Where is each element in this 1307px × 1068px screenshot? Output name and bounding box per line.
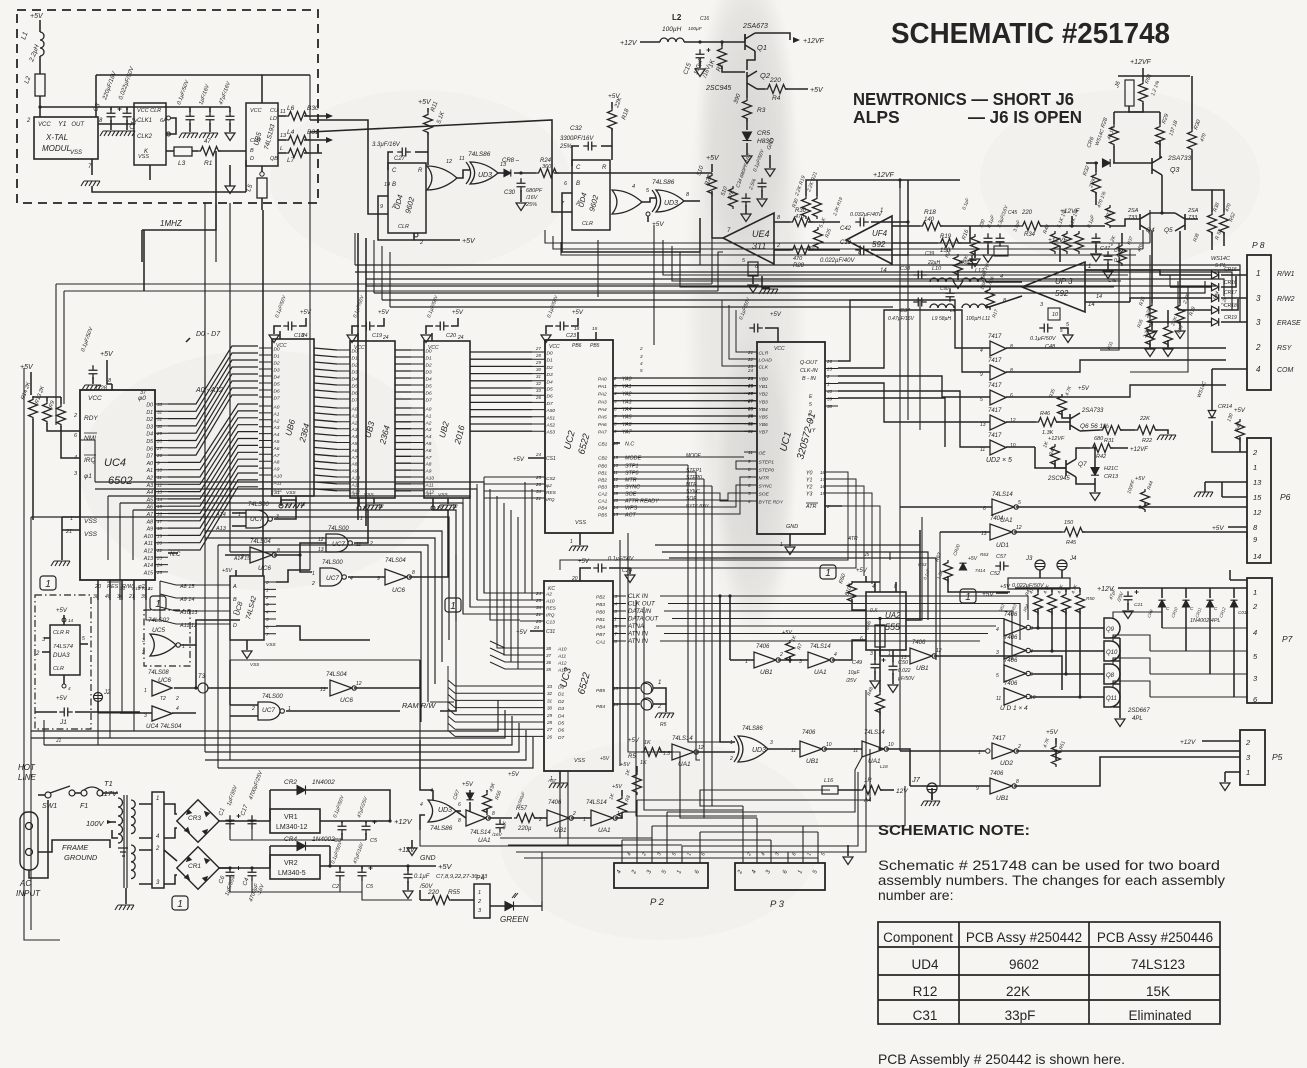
wire [1094,448,1096,460]
svg-text:24: 24 [301,333,308,339]
wire [534,817,547,819]
wire [440,700,456,711]
junction [194,686,197,689]
resistor [920,222,943,231]
wire [874,671,876,680]
wire [235,570,237,576]
wire [572,146,579,166]
box [257,178,267,198]
svg-text:F1: F1 [80,803,88,810]
inverter UD1 7404 [990,524,1016,540]
wire [209,123,211,132]
svg-text:B: B [250,148,254,154]
transistor Q10 2SD667 [1104,641,1120,661]
svg-text:12: 12 [378,504,384,510]
svg-text:+5V: +5V [30,13,44,20]
svg-text:2: 2 [419,240,423,246]
wire [388,152,393,170]
svg-text:UB1: UB1 [806,758,819,765]
wire UC1 right stubs [825,361,838,406]
wire [1110,219,1140,226]
wire [1121,233,1123,243]
wire [874,650,876,660]
svg-text:C39: C39 [925,251,934,257]
wire [752,276,754,284]
svg-text:A9: A9 [351,469,358,475]
svg-text:PB2: PB2 [598,478,607,484]
svg-text:C5: C5 [366,884,374,890]
inverter UD2 7417 [992,743,1018,759]
ground [921,801,940,806]
junction [406,864,409,867]
svg-text:C57: C57 [996,554,1007,560]
wire [907,180,909,252]
wire [1212,190,1224,212]
wire cs [280,496,282,504]
svg-text:D4: D4 [547,379,553,385]
scan blotches [80,350,440,590]
svg-text:37: 37 [546,653,552,658]
wire [232,525,246,527]
wire [246,640,248,650]
wire vcc top [262,75,310,103]
svg-text:1: 1 [658,680,661,686]
svg-text:AC: AC [19,879,31,888]
wire vss [447,498,449,504]
junction [720,40,723,43]
wire [1109,204,1111,206]
svg-text:8: 8 [1016,779,1019,785]
wire uc3 signals [656,596,1028,680]
wire [1161,200,1163,213]
wire [1142,68,1144,76]
wire [514,172,536,174]
svg-text:UB1: UB1 [996,795,1009,802]
svg-text:A4: A4 [273,432,280,438]
resistor [633,772,642,795]
wire 1MHz [142,151,216,230]
svg-text:74LS08: 74LS08 [148,670,169,676]
wire [278,152,286,154]
svg-text:+12V: +12V [394,817,413,826]
svg-text:+5V: +5V [56,608,68,614]
svg-text:74LS86: 74LS86 [468,151,491,158]
svg-text:VCC: VCC [549,344,560,350]
wire [1209,588,1211,598]
wire [270,845,330,847]
wire [486,808,488,812]
svg-text:UA1: UA1 [598,827,611,834]
jumper [1035,560,1045,570]
box [822,786,838,794]
svg-text:D: D [250,156,254,162]
svg-text:40: 40 [105,594,111,600]
wire [195,645,197,688]
wire collector [755,33,790,40]
svg-text:D1: D1 [547,358,553,364]
svg-text:17: 17 [820,477,826,482]
svg-text:T2: T2 [160,696,166,702]
wire [116,792,118,794]
svg-text:+5V: +5V [222,568,233,574]
svg-text:L9: L9 [950,308,956,313]
wire [276,570,310,582]
svg-text:CU: CU [270,108,278,114]
wire [1114,111,1143,113]
svg-text:CR16: CR16 [1224,280,1237,286]
box [994,246,1008,256]
svg-text:CR8 –: CR8 – [502,158,520,164]
svg-text:C30: C30 [504,190,516,196]
wire to Q2 [747,51,755,70]
svg-text:2: 2 [35,651,40,657]
svg-text:PA3: PA3 [598,399,607,405]
resistor R9b [875,625,885,647]
wire cpu pin stubs [155,404,168,572]
wire [39,20,41,32]
svg-text:11: 11 [280,109,286,115]
wire [320,865,436,867]
box [1240,730,1265,785]
wire base [1113,162,1152,164]
wire [1129,103,1143,112]
capacitor [696,49,705,63]
wire to P6 12 [1016,506,1247,508]
wire [958,226,970,243]
transistor [1175,213,1185,231]
wire [469,790,471,793]
svg-text:STEP0: STEP0 [686,475,702,481]
wire [1039,570,1041,578]
svg-text:PB0: PB0 [596,610,605,616]
wire [712,191,723,238]
svg-text:2: 2 [657,704,662,710]
wire [530,630,544,632]
wire decoder inputs [206,585,230,624]
svg-text:BYTE RDY: BYTE RDY [686,503,710,508]
svg-text:12: 12 [1010,418,1016,424]
svg-text:P 8: P 8 [1252,240,1265,250]
wire [1229,570,1231,580]
svg-text:C52: C52 [990,571,1000,577]
wire [892,650,894,662]
svg-text:UB1: UB1 [916,665,929,672]
svg-text:25%: 25% [559,144,573,150]
wire [1094,484,1096,492]
svg-text:+5V: +5V [452,310,464,316]
diode CR17 [1212,294,1219,302]
svg-text:12: 12 [698,745,704,751]
capacitor [361,322,375,331]
wire [931,793,933,800]
svg-text:3: 3 [144,713,147,719]
wire [38,844,52,852]
svg-text:A50: A50 [546,408,556,414]
svg-text:100µH: 100µH [662,26,682,33]
svg-text:C38: C38 [900,266,911,272]
svg-text:D7: D7 [558,735,564,741]
wire [427,108,429,112]
svg-text:NEWTRONICS — SHORT J6: NEWTRONICS — SHORT J6 [853,89,1074,109]
svg-text:3: 3 [996,650,999,656]
wire [1061,570,1063,578]
svg-text:8: 8 [492,811,495,817]
wire [80,643,88,645]
capacitor [107,108,116,122]
wire bottom rail [92,186,246,192]
svg-text:7404: 7404 [990,516,1004,522]
wire [611,128,613,160]
inverter UB1 7406 d [800,741,826,757]
wire [304,152,322,154]
svg-text:15K: 15K [1146,984,1170,999]
ground [655,713,674,718]
svg-text:R20: R20 [793,263,805,269]
resistor [429,896,452,905]
resistor [848,581,857,604]
svg-text:D3: D3 [352,370,358,376]
resistor [971,234,980,257]
svg-text:C23: C23 [566,333,577,339]
wire [1040,225,1105,227]
ground [1147,331,1157,339]
svg-text:1.3: 1.3 [663,751,670,757]
svg-text:0.032µF/40V: 0.032µF/40V [850,212,883,218]
wire [808,249,840,251]
svg-text:YB1: YB1 [759,384,769,390]
resistor [986,287,995,310]
svg-text:29: 29 [546,713,553,718]
inductor [962,304,986,308]
buffer UC6 [152,680,172,696]
wire [1143,111,1160,113]
box [174,147,192,156]
wire uc2 ll drop [463,477,520,614]
svg-text:A: A [391,204,396,210]
svg-text:DUA3: DUA3 [53,652,70,659]
ground [116,131,135,136]
svg-text:NMI: NMI [84,435,96,442]
svg-text:Q5: Q5 [1164,227,1173,234]
svg-text:PB3: PB3 [598,485,607,491]
box [270,809,320,833]
svg-text:A12: A12 [557,661,567,667]
wire [164,804,177,814]
wire [721,42,723,46]
svg-text:UC6: UC6 [392,587,405,594]
wire [900,506,992,508]
wire vss [91,159,93,175]
svg-text:PB0: PB0 [598,464,607,470]
wire [895,582,897,592]
wire [1209,607,1211,674]
svg-text:D6: D6 [558,728,564,734]
svg-text:A: A [232,584,237,590]
ground [1163,349,1173,357]
svg-text:A2: A2 [545,592,552,598]
svg-text:U D 1 × 4: U D 1 × 4 [1000,705,1028,712]
wire [647,216,649,222]
box [50,625,80,675]
wire [1015,587,1038,589]
op-amp UF4 592 [846,216,892,264]
or gate [612,190,642,214]
svg-text:A4: A4 [425,434,432,440]
wire [653,703,666,705]
svg-text:C16: C16 [700,16,709,22]
svg-text:D2: D2 [558,699,564,705]
svg-text:CA1: CA1 [598,499,608,505]
diode [959,563,966,570]
resistor [1090,444,1113,453]
wire uc2 ll pins [484,477,545,498]
svg-text:2: 2 [639,346,643,351]
svg-text:CLR: CLR [582,221,593,227]
svg-text:2: 2 [779,652,783,658]
svg-text:C49: C49 [852,660,862,666]
wire left verticals [31,517,230,768]
svg-text:UD1: UD1 [996,542,1009,549]
svg-text:MTR: MTR [686,482,697,488]
svg-text:/25V: /25V [845,678,857,684]
wire [415,151,428,153]
svg-text:T1: T1 [104,779,113,788]
wire [1107,263,1109,270]
ground [179,133,198,138]
wire [164,875,177,884]
svg-text:13: 13 [1253,478,1262,487]
wire [35,711,57,713]
wire [1094,460,1096,467]
svg-text:A10: A10 [557,647,567,653]
svg-text:UC4 74LS04: UC4 74LS04 [146,723,182,730]
arrow B30 [326,113,333,119]
transistor Q8 2SD667 [1104,664,1120,684]
resistor [1051,444,1060,467]
wire [63,615,65,625]
ground [625,575,635,583]
resistor [424,112,433,135]
wire [1076,448,1090,459]
svg-text:PA0: PA0 [598,377,607,383]
svg-text:R1: R1 [204,160,213,167]
wire p8 feeds [1100,243,1188,372]
wire [934,656,1062,690]
svg-text:+12V: +12V [1180,739,1196,746]
svg-text:PB5: PB5 [596,688,605,694]
wire [329,846,331,866]
svg-text:74LS14: 74LS14 [864,730,885,736]
svg-text:RES: RES [546,606,557,612]
svg-text:CR5: CR5 [757,130,770,137]
wire UB2 pin stubs [411,350,424,491]
ground [742,156,752,164]
svg-text:number are:: number are: [878,887,953,903]
capacitor [89,365,98,379]
transistor Q9 2SD667 [1104,618,1120,638]
wire [1150,321,1211,323]
wire rm down [32,419,34,520]
capacitor [1039,324,1053,333]
wire [1225,771,1240,773]
wire [720,596,735,742]
wire [571,318,578,326]
wire [44,637,50,639]
wire p3 risers [743,806,818,863]
svg-text:A1: A1 [351,413,358,419]
wire [245,160,247,192]
ground [1157,435,1176,440]
svg-text:74LS14: 74LS14 [672,736,693,742]
svg-text:30: 30 [547,706,553,711]
resistor [618,796,627,819]
svg-text:220: 220 [1021,210,1033,216]
wire p7 pin1 [1230,579,1247,581]
svg-text:7406: 7406 [1004,681,1018,687]
svg-text:10: 10 [1030,695,1036,701]
svg-text:1MHZ: 1MHZ [160,219,183,228]
svg-text:A11: A11 [351,482,361,488]
svg-text:74LS14: 74LS14 [810,644,831,650]
svg-text:0.022µF/40V: 0.022µF/40V [820,258,855,264]
svg-text:RSY: RSY [1277,345,1293,352]
svg-text:10: 10 [1052,312,1059,318]
svg-text:YB7: YB7 [759,430,769,436]
svg-text:L10: L10 [932,266,942,272]
capacitor [913,298,927,307]
svg-text:D7: D7 [547,401,553,407]
svg-text:STP0: STP0 [625,471,638,477]
inverter UC6 c [250,547,276,563]
wire nc [613,442,620,444]
svg-text:2: 2 [251,706,255,712]
wire [746,118,748,130]
resistor [286,149,309,158]
svg-text:Q7: Q7 [1078,461,1087,468]
wire [696,751,735,753]
wire [456,810,461,812]
svg-text:C13: C13 [546,620,555,626]
bridge diode [184,827,192,835]
svg-text:9602: 9602 [1009,957,1039,972]
wire [1151,321,1153,330]
svg-text:WS14C: WS14C [1211,256,1230,262]
svg-text:28: 28 [546,720,553,725]
wire [168,552,178,554]
svg-text:28: 28 [747,398,753,403]
svg-text:7417: 7417 [988,383,1002,389]
wire xor1 to 311 [554,172,712,174]
svg-text:Y1: Y1 [58,121,67,128]
ground [541,335,551,343]
wire UC3 data stubs [520,686,544,736]
svg-text:VCC: VCC [428,345,439,351]
svg-text:2: 2 [1252,602,1258,611]
svg-text:1: 1 [880,208,883,214]
svg-text:C: C [233,610,237,616]
bead L2 [35,74,45,96]
wire [571,817,591,819]
ground [437,505,456,510]
svg-text:24: 24 [535,452,542,457]
svg-text:A11: A11 [143,541,153,547]
svg-text:ERASE: ERASE [1277,320,1301,327]
wire [769,155,771,168]
wire [865,576,867,582]
svg-text:S1: S1 [274,490,280,496]
svg-text:VCC: VCC [88,395,102,402]
svg-text:24: 24 [533,625,540,630]
